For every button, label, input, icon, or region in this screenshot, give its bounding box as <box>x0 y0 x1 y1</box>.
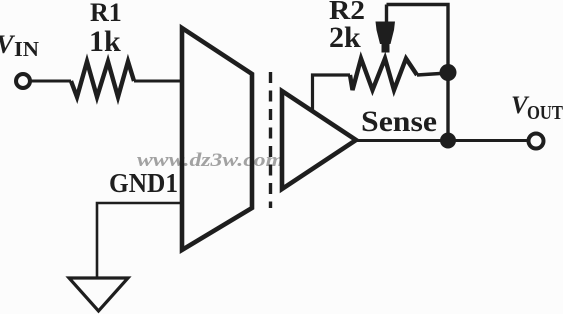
potentiometer wiper arrow <box>376 5 396 53</box>
svg-text:2k: 2k <box>329 21 361 54</box>
junction node (output) <box>440 133 456 149</box>
wire input <box>30 80 71 83</box>
wire R2 right lead <box>417 73 448 75</box>
ground symbol GND1 <box>69 278 128 311</box>
svg-text:R1: R1 <box>90 0 122 27</box>
svg-text:GND1: GND1 <box>109 168 178 198</box>
label V_IN <box>0 30 39 61</box>
terminal V_OUT <box>529 134 544 149</box>
terminal V_IN <box>16 74 30 88</box>
junction node (R2 / wiper feedback) <box>440 64 457 81</box>
wire ground <box>97 203 182 278</box>
wire wiper to output node (top) <box>387 5 449 141</box>
wire R1 to isolation amp <box>134 80 182 83</box>
svg-text:OUT: OUT <box>527 102 563 124</box>
svg-text:1k: 1k <box>89 25 121 58</box>
isolation barrier (dashed line) <box>269 72 272 208</box>
wire sense feedback (from op-amp top edge up to R2 left lead) <box>313 75 351 111</box>
op-amp output stage U1b <box>282 91 356 189</box>
label V_OUT <box>511 92 563 124</box>
resistor R1 <box>71 62 134 98</box>
isolation amplifier input stage U1a <box>182 28 252 250</box>
svg-text:IN: IN <box>14 37 39 61</box>
svg-text:Sense: Sense <box>361 105 437 138</box>
wire op-amp output to V_OUT <box>356 139 528 142</box>
resistor R2 (potentiometer body) <box>350 59 417 91</box>
